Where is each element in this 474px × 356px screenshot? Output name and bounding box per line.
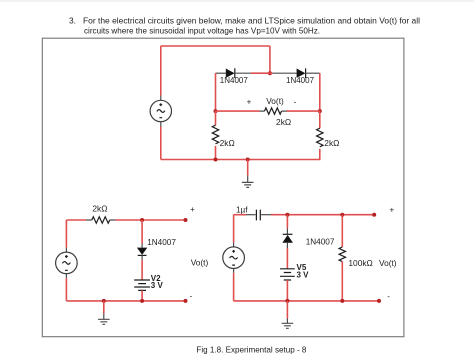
- capacitor C1 1µf: [256, 210, 260, 221]
- wire R1 bottom lead: [215, 146, 217, 160]
- svg-text:1N4007: 1N4007: [286, 76, 315, 85]
- ground (bottom-left circuit): [98, 301, 110, 324]
- wire Vo row right: [287, 110, 320, 112]
- svg-text:1N4007: 1N4007: [220, 76, 249, 85]
- node rail-ground (bottom-left): [102, 299, 106, 303]
- wire Vo row left: [216, 110, 260, 112]
- wire bottom rail (bottom-right circuit): [234, 300, 379, 302]
- svg-text:Fig 1.8. Experimental setup -: Fig 1.8. Experimental setup - 8: [196, 344, 306, 354]
- node rail-ground (top circuit): [246, 158, 250, 162]
- wire top rail (top circuit): [161, 45, 270, 47]
- diode D2 1N4007: [297, 68, 306, 78]
- diode D1 1N4007: [226, 68, 235, 78]
- svg-text:3.: 3.: [69, 15, 76, 25]
- wire top rail right (bottom-left circuit): [116, 219, 186, 221]
- wire resistor branch upper (bottom-right): [341, 215, 343, 247]
- node rail-ground (bottom-right): [285, 299, 289, 303]
- ac source V4 (bottom-right circuit): [223, 243, 245, 273]
- battery V5 3V: [280, 269, 295, 280]
- svg-text:For the electrical circuits gi: For the electrical circuits given below,…: [83, 15, 420, 25]
- svg-text:+: +: [247, 97, 252, 106]
- svg-text:2kΩ: 2kΩ: [92, 203, 107, 213]
- wire rail corner to capacitor: [234, 214, 256, 216]
- svg-text:circuits where the sinusoidal: circuits where the sinusoidal input volt…: [84, 26, 320, 36]
- wire D2 to top-right corner: [306, 72, 320, 74]
- svg-text:-: -: [387, 292, 390, 301]
- wire D4 to battery V5: [286, 248, 288, 269]
- svg-text:-: -: [294, 97, 297, 106]
- svg-text:1µf: 1µf: [236, 206, 248, 215]
- node output - terminal (bottom-right): [377, 299, 381, 303]
- resistor R2 2kΩ (right, top circuit): [317, 128, 323, 147]
- svg-text:1N4007: 1N4007: [147, 238, 176, 247]
- node diode junction: [268, 71, 272, 75]
- wire diode branch upper (bottom-right): [286, 215, 288, 234]
- svg-text:-: -: [190, 291, 193, 300]
- node Vo left: [214, 109, 218, 113]
- wire bottom rail (top circuit): [161, 159, 321, 161]
- node rail-battery (bottom-left): [140, 299, 144, 303]
- node cap-diode junction: [285, 213, 289, 217]
- resistor R4 2kΩ (bottom-left circuit): [86, 217, 116, 223]
- wire resistor to rail (bottom-right): [341, 262, 343, 301]
- wire R2 top lead: [319, 111, 321, 128]
- node Vo right: [318, 109, 322, 113]
- wire V4 bottom lead: [233, 273, 235, 301]
- wire drop to diode node: [269, 46, 271, 73]
- resistor R3 2kΩ (horizontal, top circuit): [260, 108, 287, 114]
- wire right edge (top circuit): [319, 73, 321, 111]
- wire V3 bottom lead: [65, 278, 67, 301]
- wire battery V2 to rail: [141, 290, 143, 301]
- svg-text:2kΩ: 2kΩ: [324, 138, 339, 148]
- node R4-D3 junction: [140, 218, 144, 222]
- wire top-left corner to D1: [216, 72, 226, 74]
- wire V1 top lead: [160, 46, 162, 96]
- ground (top circuit): [242, 160, 254, 188]
- svg-text:Vo(t): Vo(t): [379, 258, 397, 268]
- wire bottom rail (bottom-left circuit): [66, 300, 185, 302]
- svg-text:2kΩ: 2kΩ: [276, 117, 291, 127]
- svg-text:1N4007: 1N4007: [306, 237, 335, 246]
- svg-text:Vo(t): Vo(t): [266, 96, 284, 106]
- battery V2 3V: [134, 280, 150, 290]
- resistor R1 2kΩ (left, top circuit): [212, 125, 218, 144]
- resistor R5 100kΩ: [339, 247, 345, 262]
- svg-text:2kΩ: 2kΩ: [220, 138, 235, 148]
- wire V4 top lead / left edge (bottom-right): [233, 215, 235, 243]
- wire left edge (top circuit): [215, 73, 217, 111]
- wire D1 cathode to center node: [235, 72, 270, 74]
- wire R1 top lead: [215, 111, 217, 125]
- node rail-R1: [214, 158, 218, 162]
- svg-text:+: +: [389, 205, 394, 214]
- wire battery V5 to rail: [286, 280, 288, 301]
- wire top rail left (bottom-left circuit): [66, 219, 86, 221]
- wire R2 bottom lead: [319, 149, 321, 160]
- node output - terminal (bottom-left): [184, 299, 188, 303]
- node output + terminal (bottom-right): [372, 213, 376, 217]
- svg-text:Vo(t): Vo(t): [191, 258, 209, 268]
- node rail-resistor (bottom-right): [340, 299, 344, 303]
- wire D3 to battery V2: [141, 260, 143, 280]
- wire diode branch upper (bottom-left): [141, 220, 143, 244]
- svg-text:100kΩ: 100kΩ: [348, 258, 372, 268]
- ac source V1 (top circuit): [150, 96, 171, 127]
- ground (bottom-right circuit): [282, 301, 294, 328]
- wire center node to D2: [270, 72, 297, 74]
- diode D3 1N4007: [137, 244, 147, 260]
- wire V1 bottom lead: [160, 127, 162, 160]
- svg-text:3 V: 3 V: [297, 270, 310, 279]
- wire capacitor to + terminal: [261, 214, 374, 216]
- wire V3 top lead: [65, 220, 67, 248]
- node output + terminal (bottom-left): [184, 218, 188, 222]
- svg-text:3 V: 3 V: [151, 281, 164, 290]
- svg-text:+: +: [190, 205, 195, 214]
- diode D4 1N4007: [282, 234, 293, 248]
- ac source V3 (bottom-left circuit): [56, 248, 78, 279]
- node resistor top junction: [340, 213, 344, 217]
